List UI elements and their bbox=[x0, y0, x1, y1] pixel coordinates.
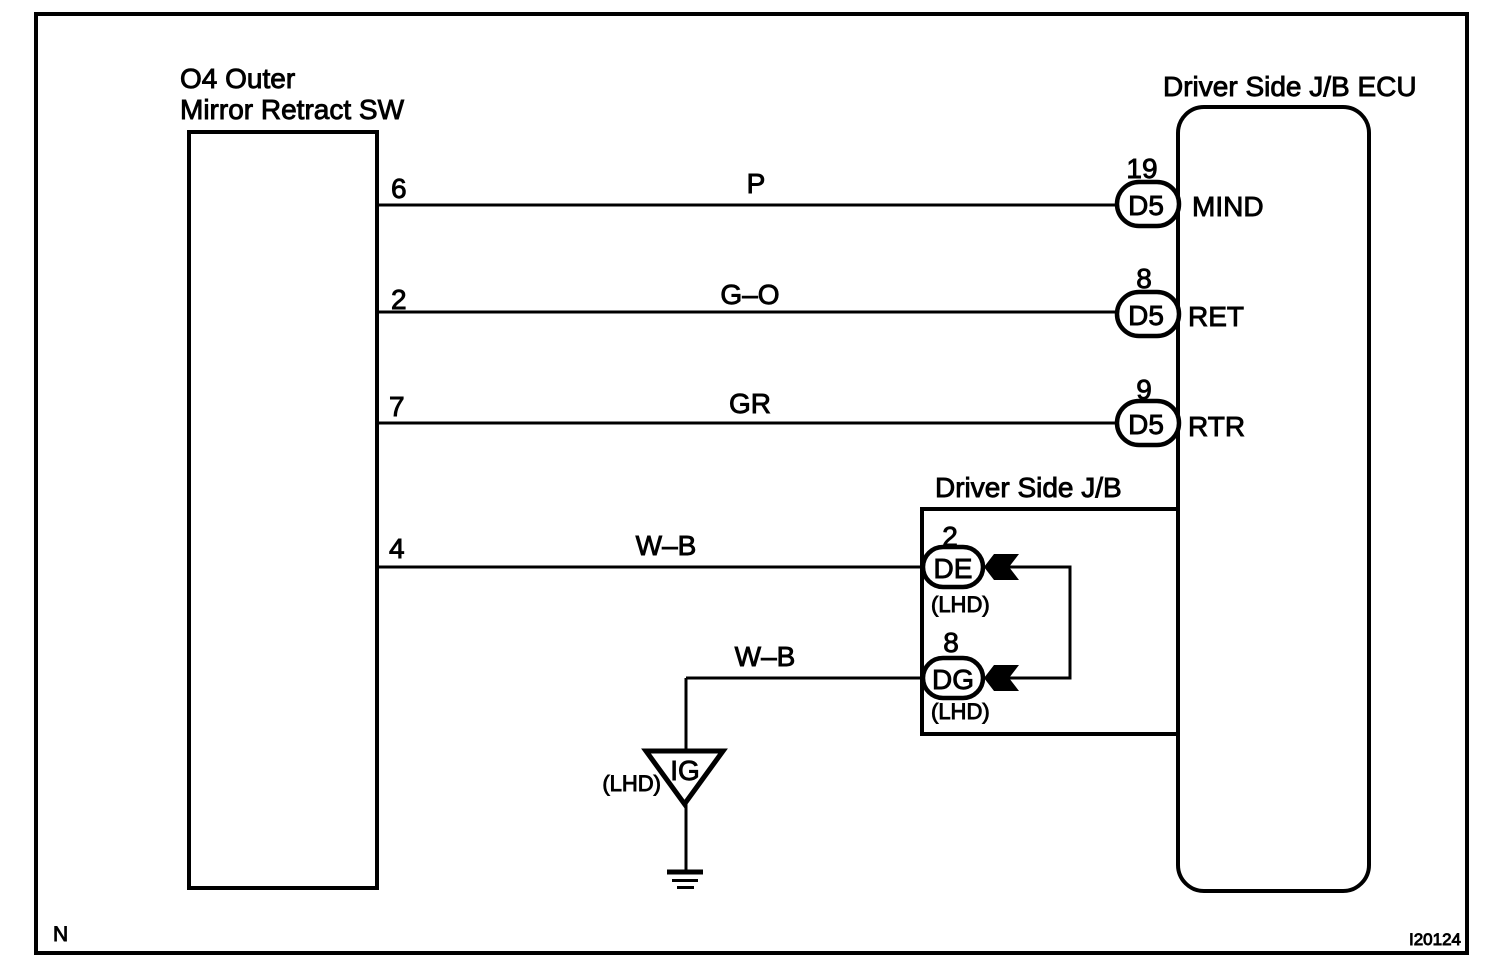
svg-text:8: 8 bbox=[1136, 263, 1152, 294]
svg-text:4: 4 bbox=[389, 533, 405, 564]
connector D5 pin9 RTR bbox=[1117, 374, 1245, 445]
svg-text:19: 19 bbox=[1126, 153, 1157, 184]
wire to IG triangle bbox=[685, 678, 688, 751]
svg-text:2: 2 bbox=[391, 284, 407, 315]
svg-text:2: 2 bbox=[942, 521, 958, 552]
svg-text:7: 7 bbox=[389, 391, 405, 422]
svg-text:RTR: RTR bbox=[1188, 411, 1245, 442]
wire G-O from switch pin 2 to D5 RET bbox=[379, 279, 1119, 315]
svg-text:Driver Side J/B ECU: Driver Side J/B ECU bbox=[1163, 71, 1417, 102]
svg-text:W–B: W–B bbox=[735, 641, 796, 672]
svg-text:DG: DG bbox=[932, 664, 974, 695]
connector D5 pin19 MIND bbox=[1117, 153, 1264, 226]
junction block "Driver Side J/B" bbox=[922, 472, 1178, 734]
svg-text:I20124: I20124 bbox=[1409, 930, 1461, 949]
connector D5 pin8 RET bbox=[1117, 263, 1244, 336]
svg-text:RET: RET bbox=[1188, 301, 1244, 332]
svg-text:W–B: W–B bbox=[636, 530, 697, 561]
power symbol IG (LHD) bbox=[602, 751, 723, 804]
wire P from switch pin 6 to D5 MIND bbox=[379, 168, 1119, 205]
svg-text:N: N bbox=[53, 923, 68, 946]
svg-text:D5: D5 bbox=[1128, 409, 1164, 440]
connector DE pin2 (LHD) bbox=[923, 521, 990, 617]
arrow into DE bbox=[984, 554, 1019, 580]
svg-text:GR: GR bbox=[729, 388, 771, 419]
svg-text:(LHD): (LHD) bbox=[602, 771, 661, 796]
connector DG pin8 (LHD) bbox=[923, 627, 990, 724]
wire W-B from switch pin 4 to DE bbox=[379, 530, 925, 567]
svg-text:8: 8 bbox=[943, 627, 959, 658]
svg-text:Driver Side J/B: Driver Side J/B bbox=[935, 472, 1122, 503]
ground symbol bbox=[667, 872, 703, 888]
svg-text:(LHD): (LHD) bbox=[931, 699, 990, 724]
svg-text:Mirror Retract SW: Mirror Retract SW bbox=[180, 94, 405, 125]
svg-text:D5: D5 bbox=[1128, 300, 1164, 331]
svg-text:D5: D5 bbox=[1128, 190, 1164, 221]
svg-text:DE: DE bbox=[934, 553, 973, 584]
wire GR from switch pin 7 to D5 RTR bbox=[379, 388, 1119, 423]
svg-text:G–O: G–O bbox=[720, 279, 779, 310]
switch O4 "Outer Mirror Retract SW" bbox=[180, 63, 405, 888]
svg-text:6: 6 bbox=[391, 173, 407, 204]
svg-text:(LHD): (LHD) bbox=[931, 592, 990, 617]
svg-text:IG: IG bbox=[670, 755, 700, 786]
wire W-B from IG branch to DG bbox=[686, 641, 925, 678]
svg-text:O4 Outer: O4 Outer bbox=[180, 63, 295, 94]
wire triangle to ground bbox=[685, 804, 688, 870]
ECU "Driver Side J/B ECU" bbox=[1163, 71, 1417, 891]
wire DE-DG internal link bbox=[1009, 567, 1070, 678]
arrow into DG bbox=[984, 665, 1019, 691]
svg-text:P: P bbox=[747, 168, 766, 199]
svg-text:MIND: MIND bbox=[1192, 191, 1264, 222]
svg-text:9: 9 bbox=[1136, 374, 1152, 405]
